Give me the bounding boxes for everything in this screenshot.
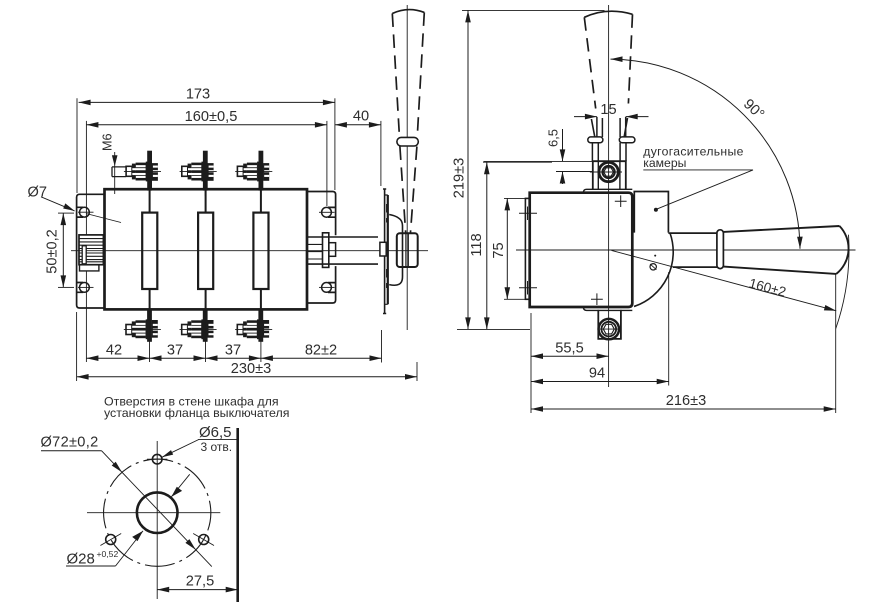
vertical centerline xyxy=(156,441,158,599)
dim 6,5 xyxy=(484,160,599,162)
shaft above bracket xyxy=(597,117,626,137)
terminal assembly top 2 xyxy=(180,151,217,196)
dim 37 a xyxy=(150,357,206,359)
flange plates xyxy=(383,189,386,314)
horizontal centerline xyxy=(87,512,220,514)
flange hub small rect xyxy=(380,242,386,256)
dim 216±3 xyxy=(835,274,837,413)
svg-text:216±3: 216±3 xyxy=(666,393,706,409)
left slot hole bottom xyxy=(80,283,90,293)
svg-text:160±0,5: 160±0,5 xyxy=(185,109,238,125)
right mounting bracket xyxy=(307,192,336,304)
svg-text:82±2: 82±2 xyxy=(305,342,337,358)
pole 3 xyxy=(253,213,268,289)
svg-text:6,5: 6,5 xyxy=(546,129,561,147)
lower-left hole xyxy=(106,535,116,545)
lower-right hole xyxy=(199,535,209,545)
body square xyxy=(530,193,633,307)
left slot hole top xyxy=(80,207,90,217)
handle cone xyxy=(723,226,848,274)
top hole Ø6,5 xyxy=(152,454,162,464)
terminal assembly bottom 3 xyxy=(235,310,272,342)
shaft collar nut xyxy=(323,233,329,268)
svg-text:3 отв.: 3 отв. xyxy=(201,440,233,454)
chamber leader dot xyxy=(654,208,658,212)
plate hole cross bottom xyxy=(519,281,537,295)
handle knob xyxy=(397,233,418,267)
bottom bolt xyxy=(599,319,622,339)
dim 173 xyxy=(76,98,78,193)
drum circle arc xyxy=(634,233,673,307)
left flange plate xyxy=(525,198,529,299)
dim 230±3 xyxy=(76,312,78,381)
svg-text:установки фланца выключателя: установки фланца выключателя xyxy=(104,406,289,420)
svg-text:75: 75 xyxy=(491,242,507,258)
cabinet wall line xyxy=(236,428,239,602)
dim 75 xyxy=(504,197,526,199)
dim 50±0,2 xyxy=(58,212,74,214)
svg-text:камеры: камеры xyxy=(643,156,686,170)
svg-text:15: 15 xyxy=(600,102,616,118)
svg-text:40: 40 xyxy=(353,108,369,124)
LEFT VIEW xyxy=(28,5,429,420)
svg-text:230±3: 230±3 xyxy=(231,361,271,377)
vertical centerline xyxy=(608,5,610,387)
top bolt bracket xyxy=(593,161,626,190)
dim 40 xyxy=(380,121,382,186)
handle vertical centerline xyxy=(406,5,408,330)
dashed handle up (right view) xyxy=(584,11,632,17)
handle swing arc xyxy=(836,235,849,329)
bolt circle Ø72 dashed xyxy=(86,441,228,583)
bottom bolt bracket xyxy=(598,310,621,339)
svg-text:94: 94 xyxy=(589,366,605,382)
bottom lip xyxy=(583,307,632,310)
dim 118 xyxy=(483,161,552,163)
dim 42 xyxy=(86,357,149,359)
svg-text:37: 37 xyxy=(167,342,183,358)
switch body xyxy=(105,189,308,309)
svg-text:Ø72±0,2: Ø72±0,2 xyxy=(41,435,99,451)
dim 94 xyxy=(668,272,670,386)
svg-text:27,5: 27,5 xyxy=(186,574,214,590)
BOTTOM FIGURE xyxy=(41,424,238,602)
terminal assembly top 1 xyxy=(124,151,161,196)
svg-text:Ø28: Ø28 xyxy=(67,551,95,568)
dim 15 xyxy=(574,116,597,118)
dashed handle (up position) xyxy=(392,10,424,14)
right slot hole bottom xyxy=(322,283,332,293)
M6 stud on first terminal xyxy=(112,167,126,177)
handle collars (up) xyxy=(588,137,603,143)
plate hole cross top xyxy=(519,207,537,221)
left mounting bracket xyxy=(77,194,105,308)
svg-text:173: 173 xyxy=(186,87,210,103)
pole 1 xyxy=(142,213,157,289)
dim 160±2 xyxy=(612,250,837,310)
svg-text:118: 118 xyxy=(469,233,485,256)
top lip xyxy=(583,189,632,192)
svg-text:+0,52: +0,52 xyxy=(97,549,119,559)
blade centerlines bottom (extension lines) xyxy=(149,303,151,362)
striped block on left bracket xyxy=(79,235,103,271)
svg-text:Ø6,5: Ø6,5 xyxy=(199,424,232,441)
svg-text:219±3: 219±3 xyxy=(452,158,468,198)
svg-text:M6: M6 xyxy=(101,134,115,152)
terminal assembly bottom 2 xyxy=(180,310,217,342)
svg-text:50±0,2: 50±0,2 xyxy=(45,229,61,274)
handle collar (left view) xyxy=(397,137,418,146)
ext line 42 left xyxy=(85,271,87,362)
terminal assembly bottom 1 xyxy=(124,310,161,342)
right slot hole top xyxy=(322,207,332,217)
dim 160±0,5 xyxy=(85,121,87,235)
pole 2 xyxy=(198,213,213,289)
dim 37 b xyxy=(206,357,261,359)
svg-text:55,5: 55,5 xyxy=(555,340,583,356)
shaft to flange xyxy=(307,237,378,264)
dim 219±3 xyxy=(462,9,605,11)
handle neck xyxy=(668,233,717,267)
small screw on drum xyxy=(650,264,656,270)
horizontal centerline xyxy=(516,249,856,251)
handle ring collar xyxy=(717,230,724,269)
bell housing xyxy=(389,215,402,286)
central hole Ø28 xyxy=(137,492,178,533)
dim 82±2 xyxy=(381,330,383,363)
axis centerline xyxy=(71,250,428,252)
terminal assembly top 3 xyxy=(235,151,272,196)
90 degree arc xyxy=(611,59,801,249)
dim 27,5 xyxy=(157,589,238,591)
svg-text:42: 42 xyxy=(106,342,122,358)
chamber block xyxy=(634,192,668,233)
dim 55,5 xyxy=(530,313,532,413)
RIGHT VIEW xyxy=(452,5,856,413)
svg-text:37: 37 xyxy=(225,342,241,358)
top bolt xyxy=(590,162,622,181)
body crosses xyxy=(591,195,627,305)
